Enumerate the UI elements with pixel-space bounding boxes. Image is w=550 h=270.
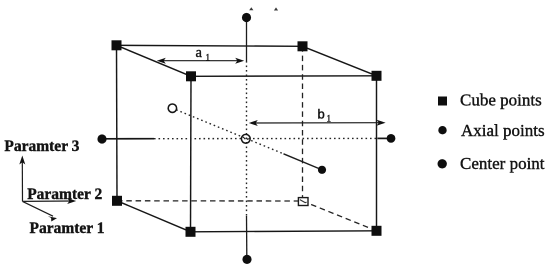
svg-text:1: 1 bbox=[327, 114, 332, 124]
svg-text:Paramter 2: Paramter 2 bbox=[27, 186, 102, 203]
svg-text:a: a bbox=[196, 45, 203, 61]
svg-text:1: 1 bbox=[206, 53, 211, 63]
svg-text:b: b bbox=[318, 106, 325, 121]
svg-text:Center point: Center point bbox=[460, 154, 545, 173]
svg-text:Axial points: Axial points bbox=[461, 121, 545, 140]
svg-text:Cube points: Cube points bbox=[460, 91, 542, 110]
svg-text:Paramter 3: Paramter 3 bbox=[4, 138, 79, 155]
svg-text:Paramter 1: Paramter 1 bbox=[30, 220, 105, 237]
